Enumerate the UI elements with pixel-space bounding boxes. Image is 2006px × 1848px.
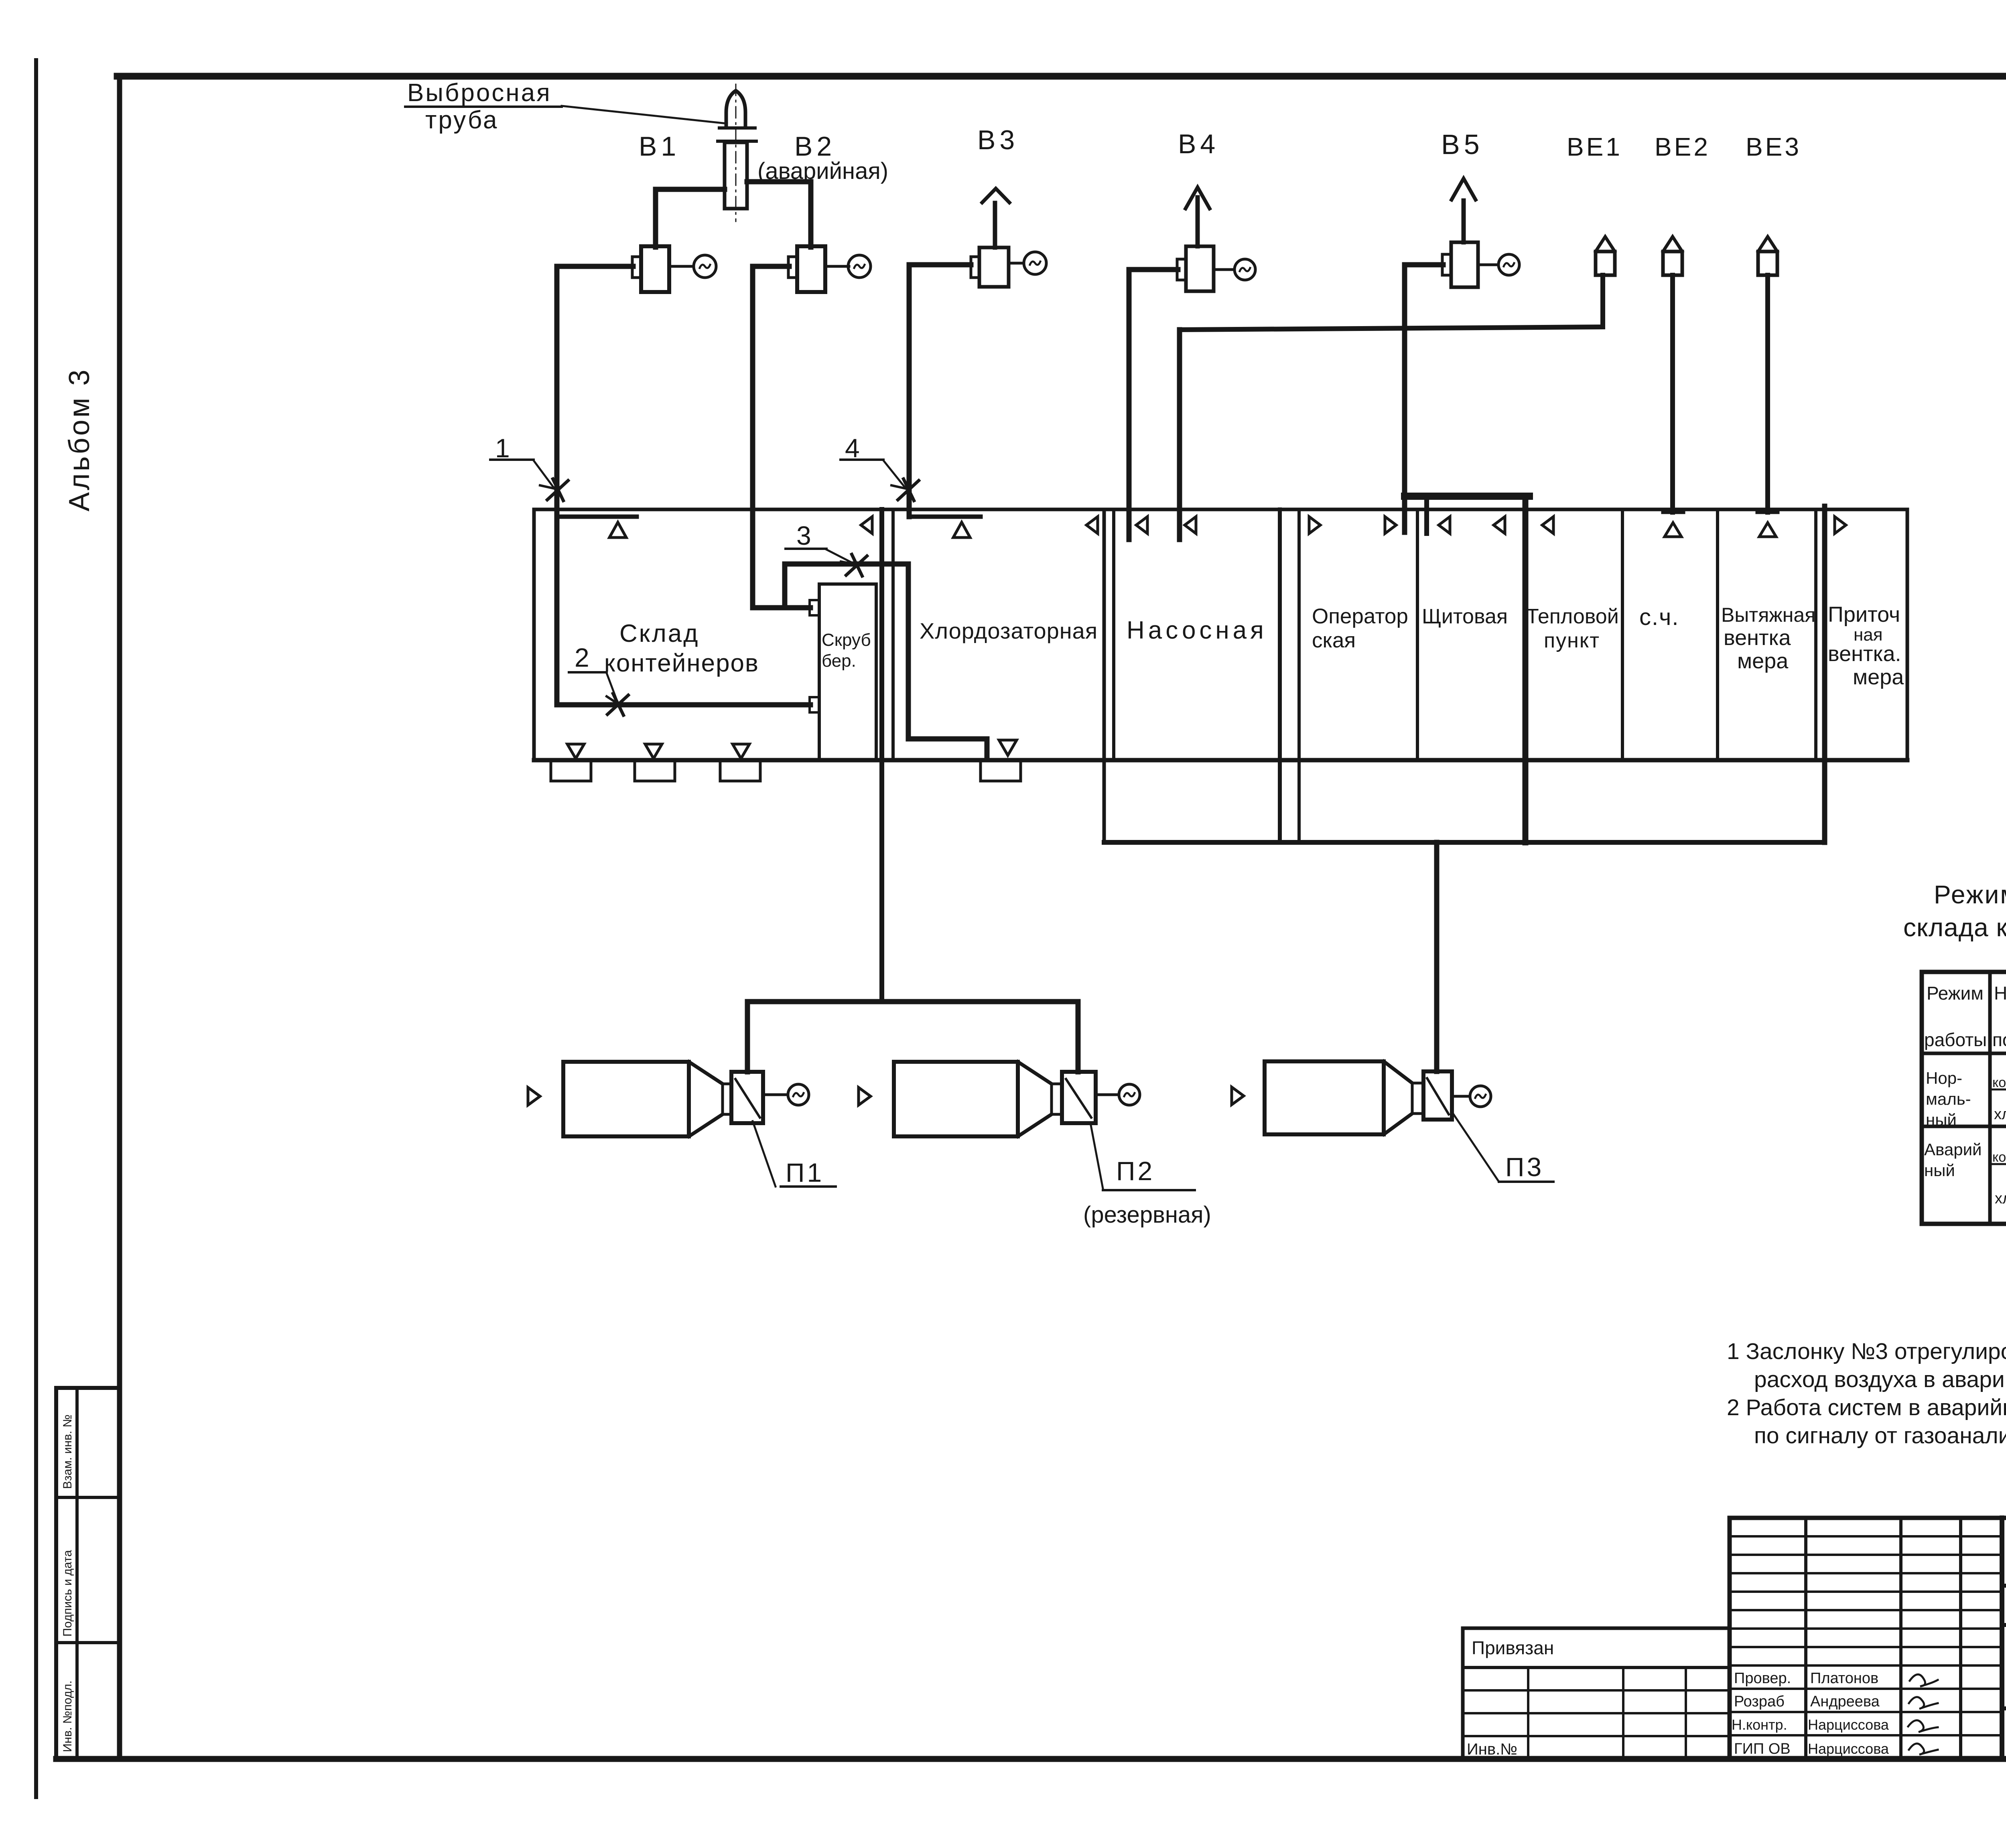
svg-text:4: 4 bbox=[845, 433, 860, 463]
svg-text:помешен: помешен bbox=[1992, 1029, 2006, 1050]
svg-text:3: 3 bbox=[796, 521, 811, 550]
svg-text:Платонов: Платонов bbox=[1810, 1670, 1878, 1687]
svg-text:2: 2 bbox=[575, 643, 589, 672]
svg-text:Инв. №подл.: Инв. №подл. bbox=[61, 1680, 74, 1752]
svg-text:труба: труба bbox=[425, 106, 498, 134]
svg-text:маль-: маль- bbox=[1926, 1089, 1971, 1108]
svg-text:бер.: бер. bbox=[822, 651, 856, 671]
svg-text:ный: ный bbox=[1924, 1161, 1955, 1180]
svg-text:В1: В1 bbox=[639, 131, 680, 162]
svg-text:П2: П2 bbox=[1116, 1156, 1155, 1186]
svg-text:ская: ская bbox=[1312, 629, 1356, 652]
svg-text:хлордозатор.: хлордозатор. bbox=[1994, 1106, 2006, 1123]
svg-text:вентка: вентка bbox=[1724, 626, 1791, 650]
svg-text:Насосная: Насосная bbox=[1127, 617, 1267, 644]
svg-text:с.ч.: с.ч. bbox=[1639, 604, 1679, 630]
svg-text:Вытяжная: Вытяжная bbox=[1721, 604, 1815, 626]
svg-text:Нарциссова: Нарциссова bbox=[1808, 1740, 1889, 1757]
svg-text:П1: П1 bbox=[786, 1158, 824, 1187]
svg-text:В4: В4 bbox=[1178, 129, 1219, 159]
svg-text:Хлордозаторная: Хлордозаторная bbox=[920, 618, 1098, 643]
svg-text:мера: мера bbox=[1737, 649, 1789, 673]
svg-text:Приточ: Приточ bbox=[1828, 602, 1900, 627]
svg-text:Скруб: Скруб bbox=[822, 630, 871, 650]
svg-text:Нарциссова: Нарциссова bbox=[1808, 1716, 1889, 1733]
svg-text:расход воздуха в аварийном реж: расход воздуха в аварийном режиме bbox=[1754, 1367, 2006, 1392]
svg-text:Выбросная: Выбросная bbox=[407, 79, 552, 107]
svg-text:Режимы работы вентиляции: Режимы работы вентиляции bbox=[1934, 880, 2006, 909]
svg-text:В3: В3 bbox=[977, 125, 1019, 155]
svg-text:Наимен.: Наимен. bbox=[1994, 983, 2006, 1004]
svg-text:Щитовая: Щитовая bbox=[1422, 605, 1508, 628]
svg-text:пункт: пункт bbox=[1544, 629, 1600, 652]
svg-text:Провер.: Провер. bbox=[1734, 1670, 1791, 1687]
svg-text:мера: мера bbox=[1853, 665, 1904, 689]
svg-text:Режим: Режим bbox=[1927, 983, 1984, 1004]
svg-text:ный: ный bbox=[1926, 1110, 1957, 1129]
svg-text:Альбом 3: Альбом 3 bbox=[63, 368, 95, 511]
svg-text:по сигналу от газоанализатора.: по сигналу от газоанализатора. bbox=[1754, 1423, 2006, 1448]
svg-text:П3: П3 bbox=[1505, 1152, 1544, 1182]
svg-text:вентка.: вентка. bbox=[1828, 642, 1901, 666]
svg-text:ВЕ2: ВЕ2 bbox=[1655, 132, 1710, 161]
svg-text:2 Работа систем в аварийном ре: 2 Работа систем в аварийном режиме автом… bbox=[1727, 1395, 2006, 1420]
svg-text:Склад: Склад bbox=[619, 620, 699, 647]
svg-text:(резервная): (резервная) bbox=[1083, 1202, 1211, 1228]
svg-text:Тепловой: Тепловой bbox=[1526, 605, 1619, 628]
svg-text:Привязан: Привязан bbox=[1472, 1637, 1554, 1658]
svg-text:В5: В5 bbox=[1441, 129, 1484, 160]
svg-text:В2: В2 bbox=[794, 131, 836, 162]
svg-text:контейнеров: контейнеров bbox=[1992, 1150, 2006, 1165]
svg-text:контейнеров: контейнеров bbox=[1992, 1075, 2006, 1090]
svg-text:Инв.№: Инв.№ bbox=[1467, 1740, 1517, 1758]
svg-text:(аварийная): (аварийная) bbox=[757, 158, 888, 184]
svg-text:Нор-: Нор- bbox=[1926, 1069, 1962, 1087]
svg-text:склада контейнеров и хлордозат: склада контейнеров и хлордозаторной. bbox=[1903, 913, 2006, 942]
svg-text:Аварий: Аварий bbox=[1924, 1140, 1982, 1159]
svg-text:ВЕ1: ВЕ1 bbox=[1567, 132, 1622, 161]
svg-text:ГИП ОВ: ГИП ОВ bbox=[1734, 1740, 1791, 1757]
svg-text:контейнеров: контейнеров bbox=[604, 649, 759, 677]
svg-text:хлордозатор: хлордозатор bbox=[1995, 1190, 2006, 1207]
svg-text:ВЕ3: ВЕ3 bbox=[1746, 132, 1801, 161]
svg-text:Взам. инв. №: Взам. инв. № bbox=[61, 1414, 74, 1489]
svg-text:работы: работы bbox=[1924, 1029, 1987, 1050]
svg-text:Розраб: Розраб bbox=[1734, 1693, 1785, 1710]
svg-text:1: 1 bbox=[495, 433, 510, 463]
svg-text:Андреева: Андреева bbox=[1810, 1693, 1880, 1710]
svg-text:Оператор: Оператор bbox=[1312, 605, 1408, 628]
svg-text:Н.контр.: Н.контр. bbox=[1732, 1716, 1787, 1733]
svg-text:Подпись и дата: Подпись и дата bbox=[61, 1550, 74, 1637]
svg-text:1 Заслонку №3 отрегулировать п: 1 Заслонку №3 отрегулировать при наладке… bbox=[1727, 1339, 2006, 1364]
